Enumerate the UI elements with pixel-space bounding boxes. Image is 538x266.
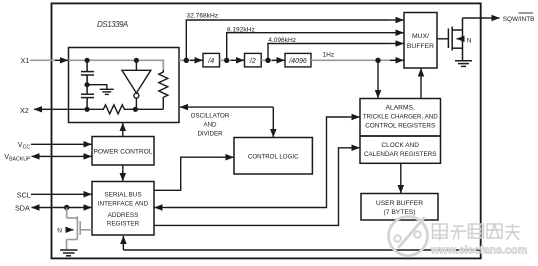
node D (inverter output) [133,107,138,112]
resistor R1 (horizontal) [101,105,164,114]
arrow into oscillator [55,59,68,61]
wire X1 (gray) [30,59,68,61]
wire SCL [31,193,80,195]
svg-text:MUX/: MUX/ [412,33,429,40]
svg-text:32.768kHz: 32.768kHz [187,12,219,19]
svg-text:AND: AND [203,122,217,129]
svg-text:/4: /4 [207,58,214,65]
op-amp/inverter (crystal amplifier) [122,60,151,109]
wire 4.096kHz [268,44,390,61]
block CONTROL LOGIC [234,138,312,175]
wire power control to oscillator [122,128,124,137]
divider /4 [203,53,220,67]
svg-text:OSCILLATOR: OSCILLATOR [191,113,230,120]
svg-text:CONTROL LOGIC: CONTROL LOGIC [248,154,299,161]
svg-text:/4096: /4096 [288,58,307,65]
svg-text:X1: X1 [21,56,30,65]
arrow into /2 [231,59,244,61]
transistor Q2 (N, gray, SDA pulldown) [67,208,93,251]
node SDA tap [64,205,69,210]
wire serial bus to clock registers [154,148,348,226]
watermark logo [389,217,428,256]
wire VCC [31,143,80,145]
block CLOCK AND CALENDAR REGISTERS [360,136,441,163]
svg-text:(7 BYTES): (7 BYTES) [384,209,416,216]
node C (on X2 line) [85,107,90,112]
svg-text:REGISTER: REGISTER [107,221,140,228]
wire SQW output [463,17,488,19]
block ALARMS / TRICKLE CHARGER / CONTROL REGISTERS [360,99,441,137]
wire VBACKUP (double arrow) [43,155,80,157]
wire serial bus to control logic [154,157,222,190]
wire oscillator output chain (gray) [179,59,203,61]
svg-text:TRICKLE CHARGER, AND: TRICKLE CHARGER, AND [363,113,438,120]
arrow Q2 body [68,229,74,231]
svg-text:N: N [57,227,62,234]
wire oscillator/divider control (L wire) [272,107,274,133]
wire 1Hz to MUX (gray) [311,59,398,61]
node A (cap branch) [85,58,90,63]
svg-text:BUFFER: BUFFER [407,43,434,50]
wire 32.768kHz [186,20,390,60]
node J2 [224,58,229,63]
arrow 1Hz into MUX [390,59,404,61]
divider /2 [245,53,262,67]
svg-text:SDA: SDA [15,203,30,212]
block POWER CONTROL [92,137,154,166]
svg-text:8.192kHz: 8.192kHz [227,26,255,33]
svg-text:DS1339A: DS1339A [97,20,128,29]
resistor R2 (vertical feedback) [159,70,168,109]
block USER BUFFER (7 BYTES) [361,194,438,221]
capacitor C2 [81,85,94,110]
wire alarms-serial bus (double arrow) [168,117,348,208]
wire ALARMS to MUX [420,72,422,98]
wire /4 to /2 (gray) [220,59,245,61]
watermark CJK text (stylized) [433,224,520,241]
svg-text:DIVIDER: DIVIDER [197,131,223,138]
wire 1Hz to ALARMS [377,60,379,94]
oscillator box [69,48,180,123]
svg-text:X2: X2 [20,106,29,115]
wire clock registers to user buffer [400,163,402,189]
MUX/BUFFER U2 [404,13,437,69]
node E (inverter input) [134,58,139,63]
svg-text:CALENDAR REGISTERS: CALENDAR REGISTERS [364,151,436,158]
svg-text:INTERFACE AND: INTERFACE AND [98,201,149,208]
svg-text:N: N [467,37,472,44]
capacitor C1 [81,60,94,84]
node J3 [265,58,270,63]
node J1 [184,58,189,63]
transistor Q1 (N output FET) [448,18,462,61]
wire serial bus bottom bus [123,249,480,251]
svg-text:SQW/INTB: SQW/INTB [503,16,535,23]
node J4 (1Hz tap) [375,58,380,63]
wire X1 internal (gray) [69,60,164,71]
svg-text:ALARMS,: ALARMS, [386,105,416,112]
ground (Q2 source) [60,250,78,256]
svg-text:SERIAL BUS: SERIAL BUS [104,192,141,199]
arrow into /4 [190,59,203,61]
block SERIAL BUS INTERFACE AND ADDRESS REGISTER [92,182,154,236]
wire /2 to /4096 (gray) [261,59,285,61]
wire 8.192kHz [227,33,390,61]
wire MUX output to gate [437,38,448,40]
svg-text:ADDRESS: ADDRESS [108,212,139,219]
wire SDA (double arrow) [43,207,80,209]
arrow into /4096 [272,59,285,61]
svg-text:1Hz: 1Hz [323,52,335,59]
ground (inside oscillator) [87,85,114,95]
svg-text:CONTROL REGISTERS: CONTROL REGISTERS [365,122,435,129]
chip outer border U_DS1339A [52,3,481,258]
divider /4096 [285,53,311,67]
wire power control to serial bus [122,165,124,173]
svg-text:/2: /2 [249,58,256,65]
ground (Q1 source) [455,61,472,67]
node B (between caps) [85,82,90,87]
svg-text:USER BUFFER: USER BUFFER [376,200,423,207]
svg-text:4.096kHz: 4.096kHz [268,37,296,44]
svg-text:www.elecfans.com: www.elecfans.com [430,245,527,257]
wire X2 with arrow out [47,108,101,110]
svg-text:POWER CONTROL: POWER CONTROL [94,148,153,155]
svg-text:CLOCK AND: CLOCK AND [381,142,419,149]
svg-text:SCL: SCL [17,190,31,199]
